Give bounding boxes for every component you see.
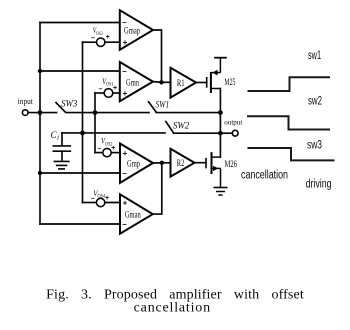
svg-text:–: –	[99, 86, 103, 93]
svg-text:–: –	[122, 169, 127, 178]
svg-text:+: +	[106, 34, 110, 41]
svg-text:+: +	[123, 199, 128, 208]
svg-text:M26: M26	[225, 159, 238, 169]
svg-text:sw3: sw3	[307, 138, 322, 152]
svg-text:R1: R1	[177, 79, 185, 89]
svg-text:–: –	[98, 146, 102, 153]
svg-text:M25: M25	[224, 77, 235, 87]
svg-text:+: +	[123, 89, 128, 98]
svg-text:Gmn: Gmn	[126, 78, 139, 88]
svg-text:Gman: Gman	[125, 211, 141, 221]
svg-text:–: –	[91, 195, 95, 202]
svg-text:cancellation: cancellation	[241, 170, 288, 182]
svg-text:+: +	[123, 38, 128, 47]
svg-text:input: input	[18, 97, 34, 106]
svg-text:Gmap: Gmap	[124, 26, 140, 36]
svg-text:SW1: SW1	[156, 101, 170, 111]
svg-text:–: –	[122, 220, 127, 229]
svg-text:Gmp: Gmp	[127, 160, 140, 170]
svg-text:–: –	[122, 18, 127, 27]
svg-text:sw2: sw2	[308, 94, 322, 108]
svg-text:cancellation: cancellation	[134, 301, 211, 316]
svg-text:+: +	[105, 195, 109, 202]
svg-text:+: +	[123, 149, 128, 158]
svg-text:–: –	[122, 67, 127, 76]
svg-text:SW2: SW2	[173, 121, 190, 131]
svg-text:+: +	[111, 145, 115, 152]
svg-text:+: +	[113, 85, 117, 92]
svg-text:driving: driving	[306, 179, 332, 191]
svg-text:VOS4: VOS4	[93, 189, 105, 200]
svg-text:sw1: sw1	[308, 48, 321, 62]
svg-text:output: output	[224, 118, 243, 127]
svg-text:C1: C1	[51, 130, 60, 142]
svg-text:SW3: SW3	[61, 99, 78, 109]
svg-text:–: –	[91, 35, 95, 42]
svg-text:R2: R2	[177, 159, 185, 169]
